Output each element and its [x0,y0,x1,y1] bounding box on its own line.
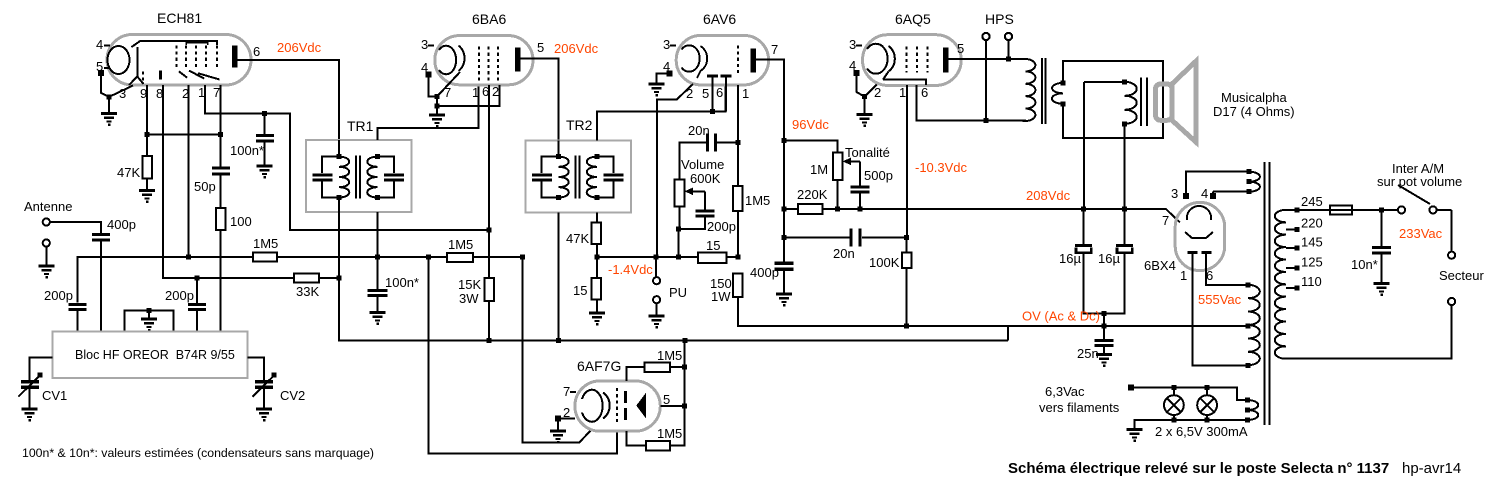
svg-text:-10.3Vdc: -10.3Vdc [915,160,968,175]
svg-text:5: 5 [537,40,544,55]
svg-text:vers filaments: vers filaments [1039,400,1120,415]
svg-text:3: 3 [663,37,670,52]
svg-text:1M5: 1M5 [657,348,682,363]
svg-text:500p: 500p [864,168,893,183]
svg-text:100: 100 [230,214,252,229]
svg-text:220: 220 [1301,216,1323,231]
svg-text:PU: PU [669,285,687,300]
svg-text:5: 5 [663,392,670,407]
svg-text:ECH81: ECH81 [157,10,202,26]
svg-text:1M5: 1M5 [253,236,278,251]
svg-text:1: 1 [899,85,906,100]
svg-text:3W: 3W [459,291,479,306]
svg-text:10n*: 10n* [1351,257,1378,272]
svg-text:Tonalité: Tonalité [845,145,890,160]
svg-text:5: 5 [957,41,964,56]
svg-text:47K: 47K [117,165,140,180]
svg-text:15: 15 [573,283,587,298]
svg-text:Volume: Volume [681,157,724,172]
svg-text:16µ: 16µ [1098,251,1120,266]
svg-text:6AF7G: 6AF7G [577,358,621,374]
svg-text:7: 7 [213,85,220,100]
svg-text:25n: 25n [1077,346,1099,361]
svg-text:4: 4 [96,37,103,52]
svg-text:hp-avr14: hp-avr14 [1402,460,1461,477]
svg-text:6: 6 [1206,268,1213,283]
svg-text:1M5: 1M5 [745,193,770,208]
svg-text:6BA6: 6BA6 [472,11,506,27]
svg-text:20n: 20n [688,123,710,138]
svg-text:OV (Ac & Dc): OV (Ac & Dc) [1022,309,1100,324]
svg-text:6: 6 [253,44,260,59]
svg-text:15: 15 [706,238,720,253]
svg-text:6AQ5: 6AQ5 [895,11,931,27]
svg-text:200p: 200p [707,219,736,234]
svg-text:Bloc HF OREOR B74R 9/55: Bloc HF OREOR B74R 9/55 [75,348,235,362]
svg-text:555Vac: 555Vac [1198,292,1242,307]
svg-text:Secteur: Secteur [1439,268,1484,283]
svg-text:5: 5 [702,86,709,101]
svg-text:20n: 20n [833,246,855,261]
svg-text:1: 1 [1180,268,1187,283]
svg-text:400p: 400p [107,217,136,232]
svg-text:3: 3 [849,37,856,52]
svg-text:2: 2 [874,85,881,100]
svg-text:145: 145 [1301,235,1323,250]
svg-text:125: 125 [1301,255,1323,270]
svg-text:6,3Vac: 6,3Vac [1045,384,1085,399]
svg-text:6AV6: 6AV6 [703,11,736,27]
svg-text:TR1: TR1 [347,118,374,134]
svg-text:6: 6 [921,85,928,100]
svg-text:sur pot volume: sur pot volume [1377,174,1462,189]
svg-text:Antenne: Antenne [24,199,72,214]
svg-text:206Vdc: 206Vdc [554,41,599,56]
svg-text:D17 (4 Ohms): D17 (4 Ohms) [1213,104,1295,119]
svg-text:208Vdc: 208Vdc [1026,188,1071,203]
svg-text:100n*: 100n* [385,275,419,290]
svg-text:6: 6 [716,85,723,100]
svg-text:100n*: 100n* [230,143,264,158]
svg-text:1M5: 1M5 [448,237,473,252]
svg-text:6: 6 [482,84,489,99]
svg-text:1M: 1M [810,162,828,177]
svg-text:1M5: 1M5 [657,426,682,441]
svg-text:96Vdc: 96Vdc [792,117,829,132]
svg-text:1: 1 [472,85,479,100]
svg-text:2: 2 [686,86,693,101]
svg-text:200p: 200p [44,288,73,303]
svg-text:9: 9 [140,86,147,101]
svg-text:15K: 15K [458,277,481,292]
svg-text:HPS: HPS [985,11,1014,27]
svg-text:33K: 33K [296,284,319,299]
svg-text:206Vdc: 206Vdc [277,40,322,55]
svg-text:600K: 600K [690,171,721,186]
svg-text:47K: 47K [566,231,589,246]
svg-text:3: 3 [1171,186,1178,201]
svg-text:7: 7 [444,85,451,100]
svg-text:Musicalpha: Musicalpha [1221,90,1288,105]
svg-text:7: 7 [563,384,570,399]
svg-text:Schéma électrique relevé sur l: Schéma électrique relevé sur le poste Se… [1008,460,1389,477]
svg-text:1: 1 [742,86,749,101]
svg-text:7: 7 [1162,213,1169,228]
svg-text:100K: 100K [869,255,900,270]
svg-text:1W: 1W [711,289,731,304]
svg-text:3: 3 [421,37,428,52]
svg-text:3: 3 [119,86,126,101]
svg-text:CV2: CV2 [280,388,305,403]
svg-text:CV1: CV1 [42,388,67,403]
svg-text:TR2: TR2 [566,117,593,133]
svg-text:233Vac: 233Vac [1399,226,1443,241]
svg-text:400p: 400p [750,265,779,280]
svg-text:2 x 6,5V 300mA: 2 x 6,5V 300mA [1155,424,1248,439]
svg-text:110: 110 [1301,274,1322,289]
svg-text:200p: 200p [165,288,194,303]
svg-text:2: 2 [492,84,499,99]
svg-text:245: 245 [1301,194,1323,209]
svg-text:16µ: 16µ [1059,251,1081,266]
svg-text:4: 4 [1201,186,1208,201]
svg-text:100n* & 10n*: valeurs estimées: 100n* & 10n*: valeurs estimées (condensa… [22,446,374,460]
svg-text:50p: 50p [194,179,216,194]
svg-text:6BX4: 6BX4 [1144,258,1176,273]
svg-text:220K: 220K [797,187,828,202]
svg-text:-1.4Vdc: -1.4Vdc [608,262,653,277]
svg-text:7: 7 [771,42,778,57]
